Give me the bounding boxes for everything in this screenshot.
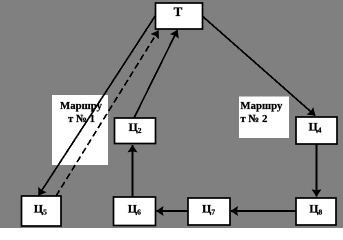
wire C7 to C6 (horizontal) [156,210,188,212]
wire T to C5 (solid, route 1 outbound) [39,16,156,196]
box T [156,3,203,29]
box C4 [296,117,337,144]
box C6 [114,197,156,226]
box C2 [115,118,156,144]
wire T to C4 (solid, route 2 first leg) [203,17,315,116]
box C8 [296,198,336,225]
svg-text:Т: Т [174,4,183,19]
box C7 [188,198,230,225]
wire C4 to C8 (vertical) [316,144,318,197]
wire C2 to T (solid, route 2 last leg) [134,30,178,118]
box C5 [22,196,62,226]
wire C8 to C7 (horizontal) [231,210,296,212]
wire C6 to C2 (vertical) [132,145,134,197]
wire C5 to T (dashed, route 1 return) [56,31,159,197]
svg-text:т № 2: т № 2 [240,113,267,125]
label Route 1 [52,95,108,165]
label Route 2 [239,97,289,139]
svg-text:Маршру: Маршру [240,100,283,112]
